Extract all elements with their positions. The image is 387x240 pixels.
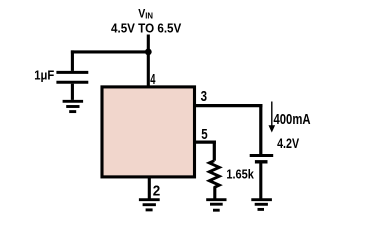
junction VIN node dot xyxy=(145,49,152,56)
label 4.2V xyxy=(277,136,299,151)
svg-text:1μF: 1μF xyxy=(34,68,54,83)
svg-text:400mA: 400mA xyxy=(274,111,311,128)
svg-text:1.65k: 1.65k xyxy=(226,166,254,181)
svg-text:2: 2 xyxy=(153,182,161,199)
pin 2 wire xyxy=(148,178,151,200)
pin 3 label xyxy=(201,89,207,105)
resistor R1 1.65k zigzag xyxy=(209,161,219,200)
battery BT1 4.2V cell xyxy=(250,156,274,200)
svg-text:5: 5 xyxy=(201,127,207,143)
node VIN label xyxy=(138,8,153,20)
current arrow 400mA xyxy=(269,102,276,133)
wire VIN vertical down to pin 4 xyxy=(147,35,150,87)
label input voltage range 4.5V TO 6.5V xyxy=(111,21,181,36)
ground under pin 2 xyxy=(139,200,160,210)
svg-text:4.5V TO 6.5V: 4.5V TO 6.5V xyxy=(111,21,181,36)
label 400mA xyxy=(274,111,311,128)
ground under battery xyxy=(251,200,272,210)
pin 2 label xyxy=(153,182,161,199)
pin 5 label xyxy=(201,127,207,143)
capacitor C1 1uF xyxy=(56,50,88,100)
IC U1 box xyxy=(102,87,195,177)
label 1uF xyxy=(34,68,54,83)
svg-text:4: 4 xyxy=(150,72,155,88)
pin 3 wire to battery node xyxy=(196,104,262,154)
ground under capacitor xyxy=(63,101,84,111)
ground under resistor xyxy=(206,200,226,211)
pin 5 wire to resistor xyxy=(196,141,216,161)
label 1.65k xyxy=(226,166,254,181)
svg-text:4.2V: 4.2V xyxy=(277,136,299,151)
svg-text:VIN: VIN xyxy=(138,8,153,20)
pin 4 label xyxy=(150,72,155,88)
svg-text:3: 3 xyxy=(201,89,207,105)
wire VIN node to capacitor xyxy=(71,50,148,53)
